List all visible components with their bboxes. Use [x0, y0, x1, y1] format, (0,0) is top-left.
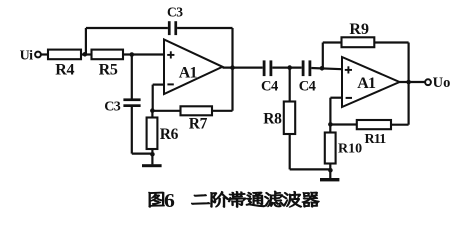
svg-text:A1: A1 — [179, 65, 198, 82]
svg-text:C4: C4 — [299, 79, 316, 95]
svg-text:R10: R10 — [338, 141, 362, 156]
svg-text:R4: R4 — [55, 61, 74, 78]
svg-text:6: 6 — [164, 189, 175, 212]
svg-text:C4: C4 — [261, 79, 278, 95]
svg-text:C3: C3 — [167, 4, 183, 19]
svg-text:R8: R8 — [263, 111, 282, 128]
svg-text:R9: R9 — [349, 21, 369, 38]
svg-text:C3: C3 — [104, 100, 121, 115]
svg-text:R5: R5 — [99, 61, 118, 78]
svg-text:Ui: Ui — [20, 48, 34, 63]
svg-text:R6: R6 — [160, 126, 179, 143]
svg-text:R11: R11 — [365, 132, 387, 147]
svg-text:Uo: Uo — [433, 75, 451, 91]
svg-text:A1: A1 — [357, 75, 376, 92]
svg-text:R7: R7 — [189, 115, 208, 132]
